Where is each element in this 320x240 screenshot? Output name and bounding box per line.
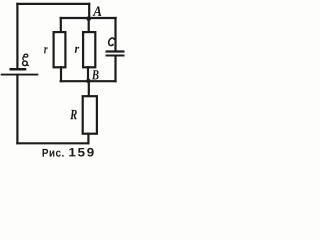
caption text Ris.	[43, 149, 64, 157]
node B junction dot	[86, 79, 91, 84]
label resistor R	[70, 110, 77, 119]
capacitor C top plate	[106, 50, 125, 52]
wire stub top of left resistor r	[60, 17, 62, 33]
wire drop from top wire to node A	[88, 3, 90, 20]
wire stub bottom of resistor R	[87, 133, 89, 145]
wire left vertical upper battery top lead	[16, 3, 18, 69]
battery EMF label script E	[23, 54, 29, 65]
wire left vertical lower battery bottom lead	[16, 74, 18, 145]
resistor R box	[83, 96, 97, 134]
resistor r left box	[54, 32, 66, 67]
capacitor C bottom plate	[106, 54, 125, 56]
wire top horizontal	[16, 3, 90, 5]
caption number 159	[69, 148, 93, 157]
label left resistor r	[44, 47, 48, 53]
wire bottom horizontal	[16, 142, 89, 144]
battery cell long plate	[1, 74, 39, 76]
wire stub top of right resistor r	[88, 17, 90, 33]
capacitor C top lead	[114, 17, 116, 52]
wire stub bottom of left resistor r	[60, 66, 62, 82]
wire bottom bus at node B	[60, 80, 117, 82]
wire top bus at node A	[60, 17, 117, 19]
label node B	[92, 70, 99, 79]
wire stub top of resistor R	[88, 80, 90, 97]
wire stub bottom of right resistor r	[87, 66, 89, 82]
node A junction dot	[86, 16, 91, 21]
battery cell short plate	[10, 68, 27, 71]
label right resistor r	[75, 47, 80, 53]
label node A	[93, 6, 102, 16]
label capacitor C	[109, 38, 114, 46]
capacitor C bottom lead	[114, 56, 116, 83]
resistor r right box	[83, 32, 95, 67]
